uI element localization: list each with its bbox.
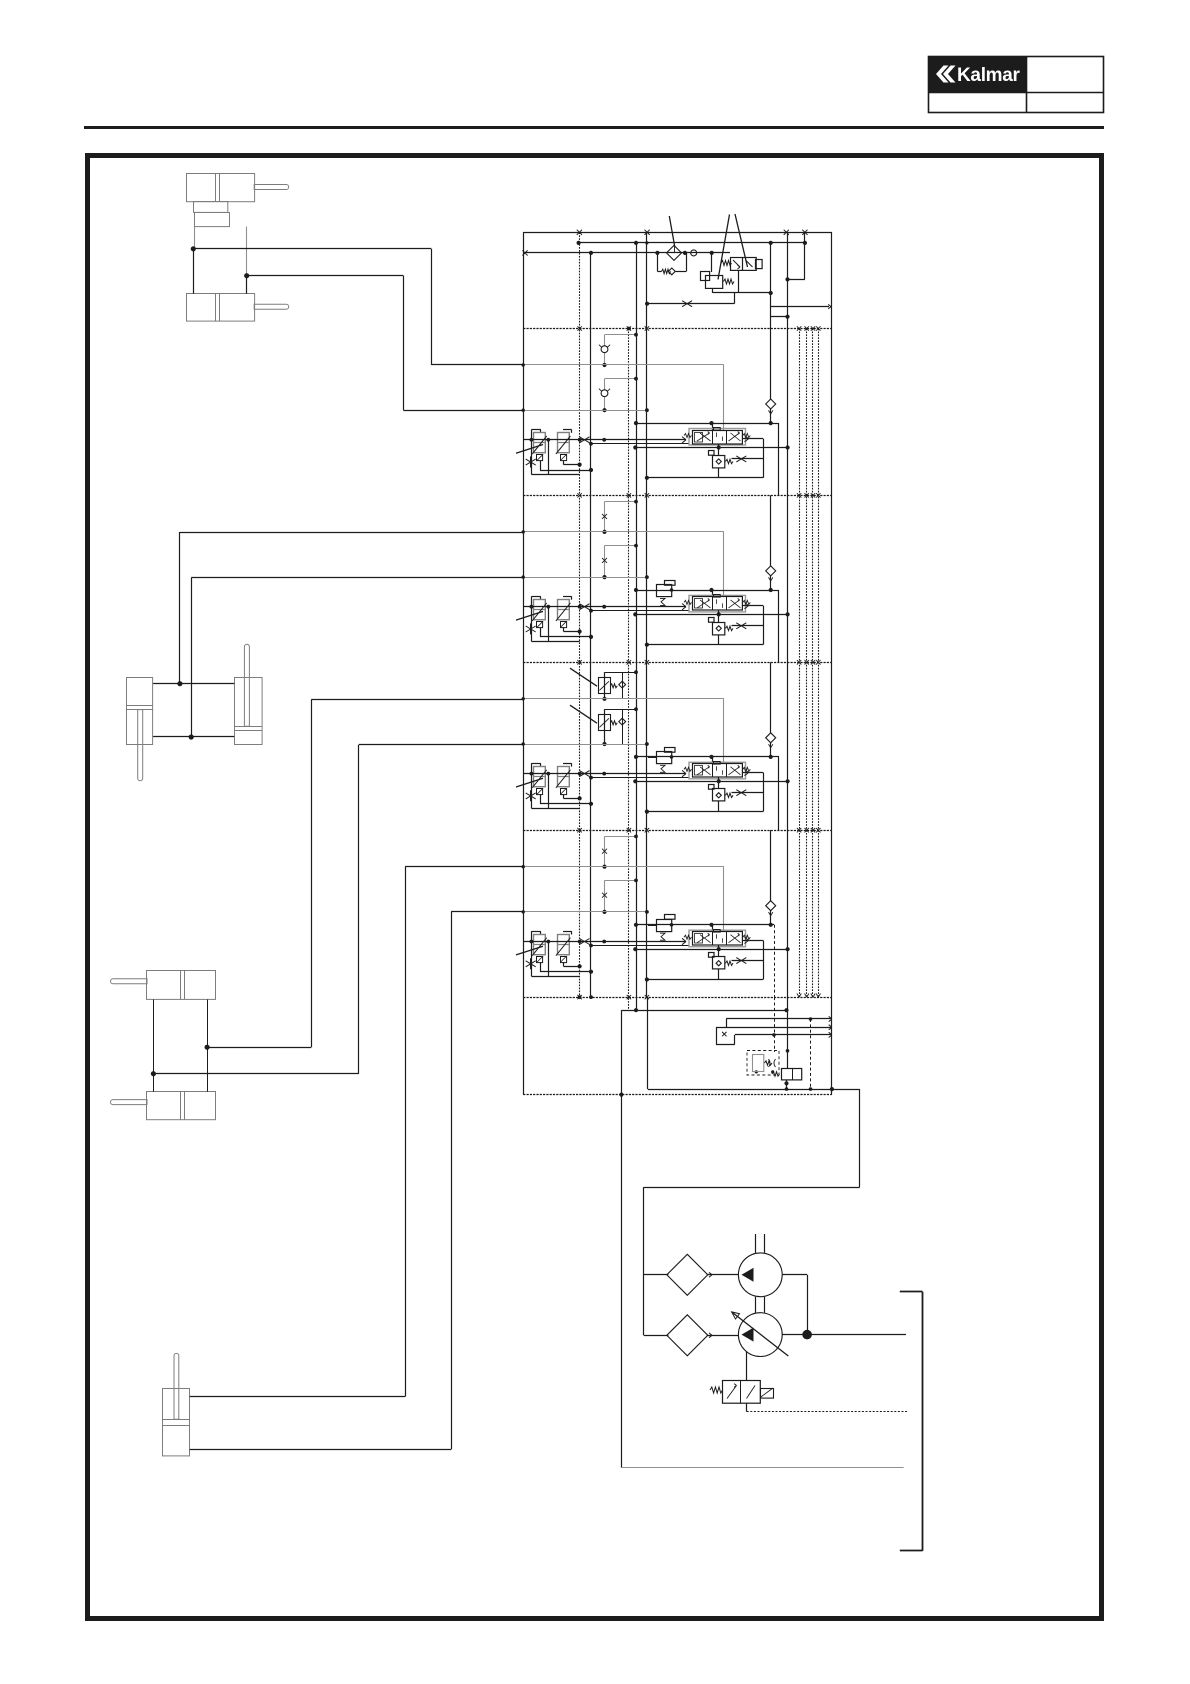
svg-text:Kalmar: Kalmar (957, 65, 1021, 86)
